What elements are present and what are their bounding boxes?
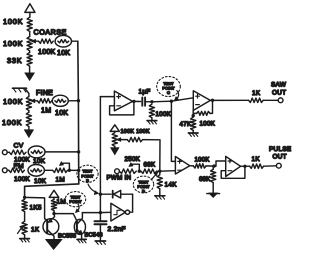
terminal SAW OUT: [263, 81, 287, 102]
svg-text:OUT: OUT: [272, 89, 286, 96]
svg-text:PWM IN: PWM IN: [107, 175, 132, 182]
terminal CV input: [2, 150, 9, 155]
svg-text:100K 100K: 100K 100K: [121, 129, 150, 135]
wire (U1 feedback): [110, 100, 136, 115]
svg-text:33K: 33K: [7, 56, 22, 65]
svg-text:1M: 1M: [41, 108, 51, 115]
wire (node to U4 plus): [214, 161, 226, 166]
pw divider wiper arrow: [117, 138, 128, 142]
potentiometer COARSE 10K: [55, 35, 78, 57]
resistor 68K (to ground): [199, 166, 216, 193]
wire (Q1 emitter to Q2 base): [54, 214, 77, 221]
svg-text:PULSE: PULSE: [269, 146, 291, 153]
terminal PWM input: [115, 169, 120, 174]
label CV: [14, 142, 24, 149]
test point B cloud: [77, 165, 99, 194]
svg-text:68K: 68K: [144, 162, 156, 169]
ground (below 1K trimmer): [20, 235, 30, 242]
label 100K 100K: [121, 129, 150, 135]
svg-text:47K: 47K: [180, 121, 192, 128]
wire (diode to inverter out): [130, 194, 133, 212]
power V- arrow (PW divider): [111, 146, 120, 155]
wire (U4 feedback): [221, 165, 246, 179]
svg-text:POINT: POINT: [69, 199, 82, 204]
resistor 1M (FM series) with wiper tie: [53, 162, 81, 184]
resistor 100K (fine upper): [3, 97, 32, 111]
transistor Q2 BC548: [74, 213, 103, 239]
resistor 33K: [7, 51, 32, 66]
svg-text:100K: 100K: [38, 49, 56, 56]
power V+ symbol (top left): [25, 4, 35, 17]
label COARSE: [34, 28, 67, 37]
svg-text:SAW: SAW: [271, 81, 287, 88]
power V+ symbol (above 1M): [49, 190, 59, 199]
power V- arrow (below fine divider): [24, 127, 33, 138]
svg-text:CV: CV: [14, 142, 24, 149]
svg-text:100K: 100K: [14, 176, 31, 183]
svg-text:100K: 100K: [195, 158, 210, 164]
svg-text:100K: 100K: [200, 120, 216, 127]
svg-text:FINE: FINE: [36, 90, 53, 97]
resistor 100K (fine lower): [2, 111, 32, 127]
resistor 100K (PW horizontal): [127, 137, 142, 141]
resistor 250K (PWM) with wiper tie: [119, 156, 141, 173]
label FINE: [36, 90, 53, 97]
wire (node to Q1 base): [25, 197, 47, 220]
wire: [29, 32, 31, 37]
power V- arrow (below Q1): [45, 239, 62, 249]
svg-text:14K: 14K: [165, 181, 178, 188]
potentiometer FM 10K: [28, 165, 53, 185]
svg-text:10K: 10K: [57, 50, 70, 57]
ground (below 47K): [188, 130, 198, 136]
svg-text:1K: 1K: [31, 226, 40, 233]
wire (saw node to U2): [152, 98, 193, 103]
svg-text:BC558: BC558: [58, 233, 77, 239]
wire (PW to U3 node): [143, 140, 160, 172]
resistor 1M (fine wiper series): [37, 99, 51, 115]
resistor 68K (PWM): [141, 162, 162, 174]
svg-text:2.2nF: 2.2nF: [108, 226, 126, 233]
op-amp U2: [193, 91, 210, 111]
label PWM IN: [107, 175, 132, 182]
ground (below Q2): [77, 239, 86, 243]
svg-text:100K: 100K: [156, 111, 172, 118]
wire (saw node down to U3): [171, 101, 175, 161]
svg-text:D: D: [142, 189, 145, 194]
ground (below 14K): [155, 189, 165, 199]
resistor 1M (to Q1): [51, 198, 66, 210]
op-amp U3: [175, 157, 189, 175]
wire (Q2 collector to cap node): [82, 212, 100, 214]
terminal PULSE OUT: [264, 146, 292, 168]
svg-text:1K: 1K: [252, 156, 261, 163]
label FM: [14, 163, 24, 170]
svg-text:B: B: [86, 178, 89, 183]
ground (below 100K saw node): [147, 118, 157, 124]
svg-text:10K: 10K: [34, 178, 47, 185]
resistor 100K (PW divider vertical): [112, 133, 117, 147]
svg-text:250K: 250K: [125, 156, 141, 163]
wire CV bus (right vertical): [78, 41, 79, 184]
diode D1: [100, 190, 132, 198]
test point D cloud: [133, 172, 158, 193]
op-amp U4 (pulse buffer): [226, 156, 241, 176]
resistor 1K (saw out): [249, 90, 264, 103]
resistor 100K (coarse wiper series): [38, 39, 56, 56]
transistor Q1 BC558: [43, 214, 77, 240]
ground (below 68K, arrow style): [207, 193, 220, 198]
wire (core node vertical): [99, 97, 102, 221]
potentiometer CV 10K: [28, 146, 80, 165]
svg-text:FM: FM: [14, 163, 24, 170]
capacitor 2.2nF: [95, 221, 126, 237]
capacitor 1uF: [134, 88, 152, 105]
svg-text:OUT: OUT: [273, 154, 287, 161]
trimmer 1K (rheostat): [18, 212, 40, 235]
resistor 100K (middle of coarse divider): [3, 37, 32, 51]
ground (fine top): [13, 88, 29, 96]
wire (U2 output): [210, 99, 248, 102]
svg-text:100K: 100K: [3, 39, 23, 48]
svg-text:1μF: 1μF: [139, 88, 151, 95]
svg-text:1K: 1K: [252, 90, 261, 97]
resistor 100K (top of coarse divider): [3, 17, 32, 32]
power V- arrow (below 33K): [25, 66, 35, 80]
node (Q1 emitter / 1M): [52, 211, 55, 216]
svg-text:1K5: 1K5: [30, 204, 42, 211]
test point C cloud: [157, 77, 181, 101]
resistor 47K: [180, 117, 196, 130]
wire (node to U3 minus): [160, 170, 176, 173]
svg-text:1M: 1M: [56, 176, 65, 183]
resistor 100K (saw node to ground): [149, 104, 171, 118]
resistor 14K: [157, 171, 177, 189]
svg-text:1M: 1M: [57, 198, 66, 205]
svg-text:10K: 10K: [55, 110, 68, 117]
fine wiper arrow into divider: [31, 99, 38, 103]
resistor 100K (CV input): [9, 150, 30, 163]
svg-text:100K: 100K: [3, 97, 23, 106]
resistor 100K (U2 feedback): [192, 100, 216, 127]
terminal FM input: [2, 168, 8, 173]
test point A cloud: [65, 192, 85, 213]
resistor 100K (FM input): [9, 168, 31, 183]
potentiometer FINE 10K: [52, 95, 80, 117]
power V+ symbol (PW divider): [110, 125, 119, 133]
wire (CV sum to 1K5 chain): [23, 184, 79, 199]
svg-text:100K: 100K: [2, 118, 22, 127]
resistor 100K (U3 out): [190, 158, 216, 169]
svg-text:100K: 100K: [3, 17, 23, 26]
schmitt inverter U5: [100, 203, 129, 221]
resistor 1K5: [22, 199, 42, 211]
resistor 1K (pulse out): [241, 156, 264, 169]
coarse wiper arrow into divider: [31, 39, 38, 43]
svg-text:C: C: [167, 90, 170, 95]
svg-text:68K: 68K: [199, 176, 211, 183]
op-amp U1 (buffer): [100, 91, 132, 111]
ground (below 2.2nF): [95, 237, 105, 244]
node (saw AC node): [150, 100, 153, 103]
